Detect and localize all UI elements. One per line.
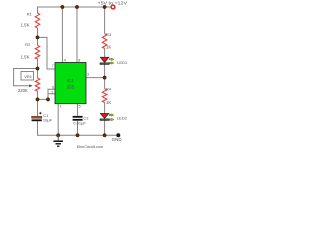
resistor R3: [102, 34, 106, 49]
svg-text:4: 4: [64, 59, 66, 63]
svg-text:1.5K: 1.5K: [21, 55, 30, 60]
LED2 arrows: [109, 114, 114, 117]
svg-text:R4: R4: [106, 86, 112, 91]
wire pin1 to rail: [57, 104, 59, 136]
svg-text:6: 6: [52, 86, 54, 90]
svg-text:8: 8: [78, 59, 80, 63]
wire pin6 pin2 run: [38, 89, 56, 99]
svg-text:GND: GND: [112, 137, 123, 142]
VR1 label box: [21, 72, 34, 81]
svg-text:1K: 1K: [106, 100, 111, 105]
svg-text:R1: R1: [27, 11, 33, 16]
capacitor C1 electrolytic: [32, 116, 42, 118]
wire pin4 vertical: [61, 7, 63, 63]
wire C1 to rail: [37, 121, 39, 136]
svg-text:2: 2: [51, 90, 53, 94]
svg-text:555: 555: [67, 85, 75, 90]
svg-text:ElecCircuit.com: ElecCircuit.com: [77, 145, 103, 149]
svg-text:IC1: IC1: [67, 78, 74, 83]
svg-text:220K: 220K: [18, 88, 28, 93]
svg-text:0.01µF: 0.01µF: [73, 121, 86, 126]
wire R3 top lead: [104, 7, 106, 34]
wire R4 to LED2: [104, 103, 106, 114]
LED1 arrows: [109, 58, 114, 61]
wire pin3 stub: [86, 77, 105, 79]
potentiometer VR1: [35, 78, 39, 91]
resistor R1: [35, 13, 39, 28]
svg-text:1: 1: [60, 105, 62, 109]
svg-text:3: 3: [87, 73, 89, 77]
junction dots: [61, 5, 64, 8]
svg-text:10µF: 10µF: [43, 117, 53, 122]
wire VR1 to C1: [37, 91, 39, 116]
svg-text:7: 7: [52, 64, 54, 68]
wire pin8 vertical: [76, 7, 78, 63]
svg-text:R2: R2: [25, 42, 31, 47]
svg-text:VR1: VR1: [24, 74, 33, 79]
wire node3 to R4: [104, 78, 106, 89]
wire R2 bottom lead: [37, 59, 39, 78]
wire ground rail: [38, 134, 117, 136]
svg-text:LED1: LED1: [117, 60, 128, 65]
wire R3 to LED1: [104, 49, 106, 58]
svg-text:5: 5: [79, 105, 81, 109]
svg-text:+5V to +12V: +5V to +12V: [98, 1, 128, 6]
wire wiper branch: [14, 69, 38, 86]
wire pin5 to C2: [77, 104, 79, 116]
terminal GND: [116, 133, 120, 137]
ground symbol: [57, 135, 59, 140]
svg-text:R3: R3: [106, 32, 112, 37]
wire top rail V+: [38, 7, 112, 13]
wire pin7 run: [38, 37, 56, 69]
wire LED1 to node3: [104, 64, 106, 77]
resistor R2: [35, 45, 39, 59]
wire LED2 to ground rail: [104, 121, 106, 136]
VR1 wiper arrow: [29, 85, 32, 87]
svg-text:LED2: LED2: [117, 115, 128, 120]
wire C2 to rail: [77, 121, 79, 136]
capacitor C2: [73, 116, 83, 118]
svg-text:1K: 1K: [106, 44, 111, 49]
svg-text:1.5K: 1.5K: [21, 22, 30, 27]
LED2: [100, 114, 109, 119]
wire R1 bottom lead: [37, 28, 39, 45]
resistor R4: [102, 89, 106, 103]
LED1: [100, 57, 109, 62]
IC U1 555: [55, 63, 86, 104]
terminal V+: [111, 5, 115, 9]
